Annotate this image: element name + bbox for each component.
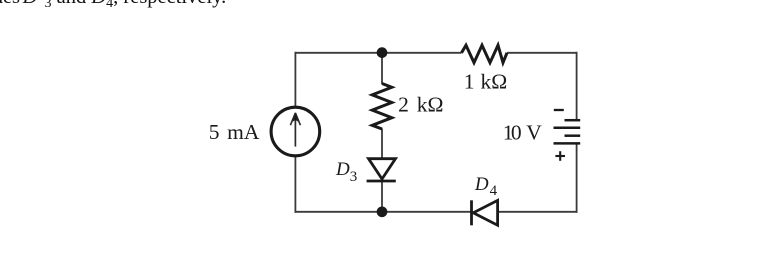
label D4 bbox=[474, 174, 498, 199]
svg-text:mA: mA bbox=[227, 120, 260, 144]
wire middle branch lower (diode D3 to bottom node) bbox=[381, 181, 383, 212]
label 2 kOhm bbox=[398, 92, 443, 116]
label minus sign of battery bbox=[554, 109, 564, 111]
wire bottom-left segment (bottom-left corner to diode D4) bbox=[295, 211, 472, 213]
label plus sign of battery bbox=[555, 151, 565, 161]
label 1 kOhm bbox=[464, 69, 508, 93]
svg-text:2: 2 bbox=[398, 92, 409, 116]
wire middle branch upper (top node to 2k resistor) bbox=[381, 53, 383, 84]
label 10 V bbox=[503, 121, 543, 145]
battery V1 plate 2 (long) bbox=[554, 127, 581, 130]
node top junction dot bbox=[377, 47, 388, 58]
resistor 1 kOhm (horizontal zigzag) bbox=[462, 45, 508, 63]
battery V1 plate 4 (long, bottom) bbox=[554, 142, 581, 145]
svg-text:5: 5 bbox=[209, 120, 220, 144]
diode D4 cathode bar bbox=[470, 200, 473, 225]
resistor 2 kOhm (vertical zigzag) bbox=[372, 84, 392, 130]
diode D4 (pointing left, open triangle) bbox=[473, 200, 497, 225]
label 5 mA bbox=[209, 120, 260, 144]
node bottom junction dot bbox=[377, 206, 388, 217]
cropped caption text: "...diodes D3 and D4, respectively." bbox=[0, 0, 226, 9]
wire bottom-right segment (diode D4 to bottom-right corner) bbox=[498, 211, 578, 213]
label D3 bbox=[335, 159, 357, 185]
svg-text:0: 0 bbox=[511, 121, 522, 145]
diode D3 cathode bar bbox=[367, 180, 396, 183]
current source I1 5 mA (circle) bbox=[271, 107, 320, 156]
wire right branch lower (battery to bottom-right corner) bbox=[576, 143, 578, 212]
svg-text:V: V bbox=[526, 121, 542, 145]
svg-text:3: 3 bbox=[350, 169, 358, 185]
wire left branch upper (corner down to current source) bbox=[294, 52, 296, 107]
current source arrow bbox=[290, 113, 300, 147]
wire top-right segment (1k resistor to top-right corner) bbox=[507, 52, 578, 54]
svg-text:kΩ: kΩ bbox=[417, 92, 444, 116]
battery V1 plate 1 (short, top) bbox=[565, 119, 581, 122]
svg-text:1: 1 bbox=[464, 69, 475, 93]
svg-text:D: D bbox=[335, 159, 350, 180]
battery V1 plate 3 (short) bbox=[565, 134, 581, 137]
svg-text:D: D bbox=[474, 174, 489, 195]
wire top-left segment (top node to 1k resistor) bbox=[295, 52, 462, 54]
svg-text:kΩ: kΩ bbox=[481, 69, 508, 93]
svg-text:4: 4 bbox=[490, 183, 498, 199]
wire left branch lower (current source to bottom-left corner) bbox=[294, 157, 296, 213]
wire right branch upper (top-right corner down to battery) bbox=[576, 52, 578, 120]
diode D3 (pointing down, open triangle) bbox=[369, 159, 396, 179]
wire middle branch middle (2k resistor to diode D3) bbox=[381, 129, 383, 159]
